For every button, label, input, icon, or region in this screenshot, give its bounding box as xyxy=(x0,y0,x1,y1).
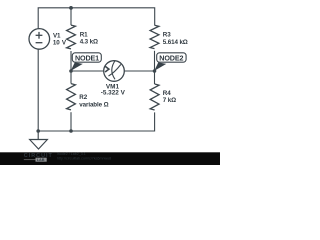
wire node to R2 xyxy=(70,71,72,84)
wire R3 bottom to node B xyxy=(154,51,156,71)
svg-text:R4: R4 xyxy=(163,90,171,97)
svg-text:V1: V1 xyxy=(53,33,61,40)
junction node A xyxy=(69,69,73,73)
label V1 value xyxy=(53,33,67,47)
label VM1 value xyxy=(101,83,126,96)
wire bottom rail xyxy=(38,112,154,131)
node NODE2 flag xyxy=(154,53,186,71)
label R2 value xyxy=(79,94,108,108)
label R4 value xyxy=(163,90,176,104)
label R3 value xyxy=(163,32,188,47)
svg-text:-5.322 V: -5.322 V xyxy=(101,90,126,97)
junction dot top xyxy=(69,6,73,10)
resistor R3 xyxy=(150,25,159,48)
wire node A to voltmeter xyxy=(71,70,104,72)
watermark bar xyxy=(0,152,220,165)
label R1 value xyxy=(80,31,98,45)
svg-text:R2: R2 xyxy=(79,94,87,101)
svg-text:4.3 kΩ: 4.3 kΩ xyxy=(80,39,98,46)
svg-text:R3: R3 xyxy=(163,32,171,39)
svg-text:R1: R1 xyxy=(80,31,88,38)
wire voltmeter to node B xyxy=(124,70,154,72)
wire node B to R4 xyxy=(154,71,156,84)
resistor R4 xyxy=(150,84,159,110)
wire left rail bottom xyxy=(37,49,39,131)
svg-text:10 V: 10 V xyxy=(53,40,67,47)
wire R1 top stub xyxy=(70,8,72,25)
junction dot ground xyxy=(36,129,40,133)
svg-text:LAB: LAB xyxy=(37,158,45,162)
wire R1 bottom to node xyxy=(70,51,72,71)
voltage source V1 xyxy=(29,29,50,50)
svg-text:7 kΩ: 7 kΩ xyxy=(163,97,176,104)
junction node B xyxy=(153,69,157,73)
junction dot bottom middle xyxy=(69,129,73,133)
voltmeter VM1 xyxy=(104,60,125,81)
svg-text:variable Ω: variable Ω xyxy=(79,101,108,108)
wire top rail xyxy=(38,8,155,29)
watermark logo CIRCUIT xyxy=(24,153,53,162)
node NODE1 flag xyxy=(71,53,102,71)
resistor R1 xyxy=(67,25,76,49)
ground xyxy=(30,131,48,149)
svg-text:NODE2: NODE2 xyxy=(159,53,183,62)
resistor R2 variable xyxy=(67,84,76,110)
svg-text:NODE1: NODE1 xyxy=(75,53,99,62)
svg-text:http:​//circuitlab.com/c/7ka5m: http:​//circuitlab.com/c/7ka5mnwu8 xyxy=(57,157,111,161)
wire R2 bottom xyxy=(70,112,72,131)
svg-text:5.614 kΩ: 5.614 kΩ xyxy=(163,39,188,46)
